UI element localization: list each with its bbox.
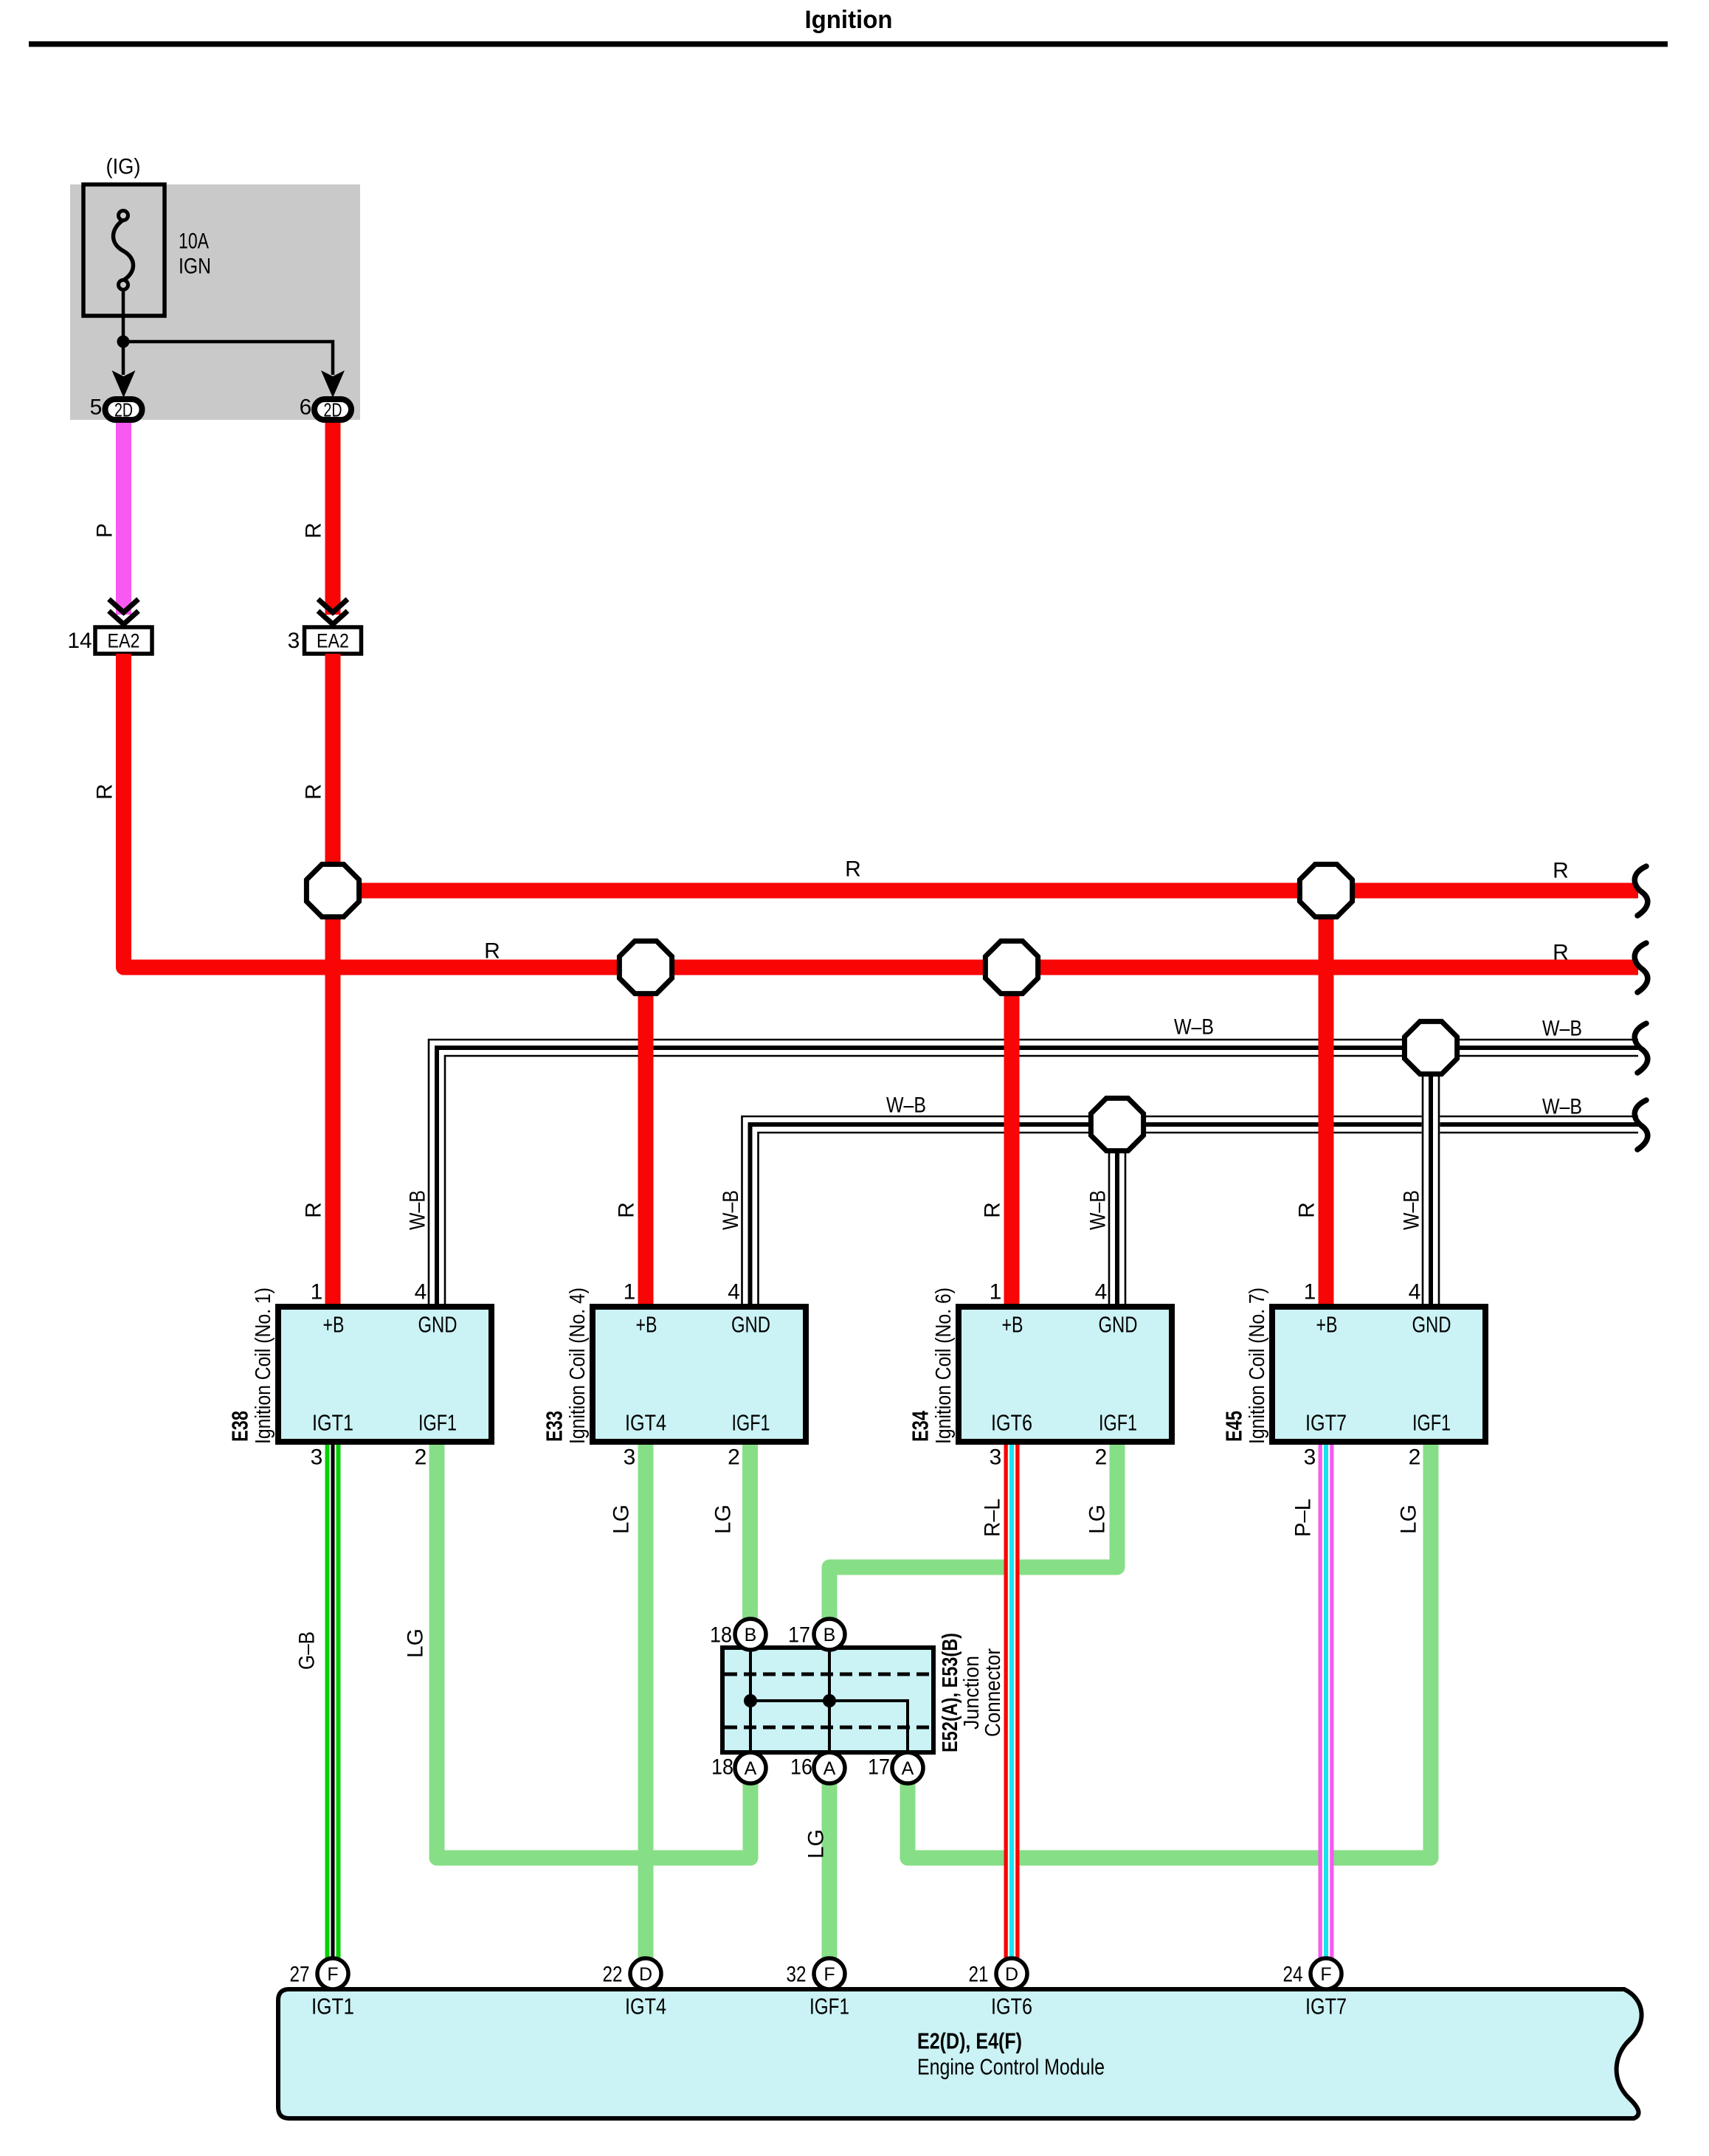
svg-text:W–B: W–B xyxy=(886,1093,926,1118)
svg-text:W–B: W–B xyxy=(406,1190,430,1230)
svg-text:R: R xyxy=(981,1202,1005,1218)
svg-text:4: 4 xyxy=(728,1280,740,1305)
svg-text:E34: E34 xyxy=(908,1410,933,1442)
svg-text:IGN: IGN xyxy=(179,255,211,279)
svg-text:+B: +B xyxy=(323,1312,345,1338)
svg-text:R: R xyxy=(302,1202,326,1218)
svg-text:E2(D), E4(F): E2(D), E4(F) xyxy=(917,2028,1022,2054)
svg-text:W–B: W–B xyxy=(1174,1015,1214,1040)
svg-text:3: 3 xyxy=(990,1445,1002,1470)
svg-text:4: 4 xyxy=(1409,1280,1421,1305)
svg-text:1: 1 xyxy=(311,1280,323,1305)
svg-text:2: 2 xyxy=(1409,1445,1421,1470)
svg-text:+B: +B xyxy=(636,1312,657,1338)
svg-text:10A: 10A xyxy=(179,229,209,254)
svg-text:IGT7: IGT7 xyxy=(1305,1410,1347,1436)
svg-text:GND: GND xyxy=(731,1312,770,1338)
svg-text:EA2: EA2 xyxy=(317,630,349,652)
svg-text:LG: LG xyxy=(1397,1504,1421,1534)
svg-text:A: A xyxy=(902,1758,914,1779)
svg-text:Ignition Coil (No. 4): Ignition Coil (No. 4) xyxy=(566,1288,590,1444)
svg-text:E38: E38 xyxy=(227,1411,253,1442)
svg-text:EA2: EA2 xyxy=(108,630,140,652)
svg-text:2D: 2D xyxy=(114,399,133,421)
svg-text:IGF1: IGF1 xyxy=(809,1994,849,2019)
svg-text:17: 17 xyxy=(868,1755,890,1780)
svg-text:3: 3 xyxy=(288,629,300,653)
svg-text:4: 4 xyxy=(1095,1280,1108,1305)
svg-text:F: F xyxy=(824,1964,835,1985)
svg-text:32: 32 xyxy=(787,1963,807,1987)
svg-text:IGF1: IGF1 xyxy=(418,1410,457,1436)
svg-text:5: 5 xyxy=(90,395,103,420)
svg-text:Ignition Coil (No. 6): Ignition Coil (No. 6) xyxy=(932,1288,956,1444)
svg-text:+B: +B xyxy=(1316,1312,1338,1338)
svg-text:IGT1: IGT1 xyxy=(312,1410,353,1436)
svg-text:IGT6: IGT6 xyxy=(991,1410,1032,1436)
svg-text:R: R xyxy=(845,857,861,882)
svg-text:GND: GND xyxy=(1099,1312,1138,1338)
svg-text:Ignition: Ignition xyxy=(805,6,893,34)
svg-text:A: A xyxy=(824,1758,836,1779)
svg-text:LG: LG xyxy=(610,1504,634,1534)
svg-text:R: R xyxy=(1553,941,1569,965)
svg-text:18: 18 xyxy=(710,1623,732,1648)
svg-text:IGF1: IGF1 xyxy=(1099,1410,1137,1436)
svg-text:GND: GND xyxy=(1412,1312,1451,1338)
svg-text:R–L: R–L xyxy=(981,1499,1005,1537)
svg-text:2: 2 xyxy=(415,1445,427,1470)
svg-text:17: 17 xyxy=(788,1623,810,1648)
svg-text:E45: E45 xyxy=(1221,1411,1247,1442)
svg-text:R: R xyxy=(1553,859,1569,883)
svg-text:GND: GND xyxy=(418,1312,458,1338)
svg-text:IGF1: IGF1 xyxy=(732,1410,770,1436)
svg-text:F: F xyxy=(1320,1964,1331,1985)
svg-text:(IG): (IG) xyxy=(106,155,141,179)
svg-text:W–B: W–B xyxy=(1086,1190,1111,1230)
svg-text:4: 4 xyxy=(415,1280,427,1305)
svg-text:IGT4: IGT4 xyxy=(625,1994,666,2019)
svg-text:E52(A), E53(B): E52(A), E53(B) xyxy=(939,1633,962,1752)
svg-text:B: B xyxy=(745,1625,757,1645)
svg-text:1: 1 xyxy=(1304,1280,1316,1305)
svg-text:3: 3 xyxy=(311,1445,323,1470)
svg-text:W–B: W–B xyxy=(1400,1190,1424,1230)
svg-text:R: R xyxy=(615,1202,639,1218)
svg-text:22: 22 xyxy=(603,1963,623,1987)
svg-text:1: 1 xyxy=(624,1280,636,1305)
svg-text:1: 1 xyxy=(990,1280,1002,1305)
svg-text:16: 16 xyxy=(790,1755,812,1780)
svg-text:IGT4: IGT4 xyxy=(625,1410,666,1436)
svg-text:Engine Control Module: Engine Control Module xyxy=(917,2054,1105,2080)
svg-text:3: 3 xyxy=(1304,1445,1316,1470)
svg-text:R: R xyxy=(484,939,500,964)
svg-text:3: 3 xyxy=(624,1445,636,1470)
svg-text:F: F xyxy=(327,1964,338,1985)
svg-text:D: D xyxy=(1005,1964,1018,1985)
svg-text:R: R xyxy=(302,522,326,539)
svg-text:W–B: W–B xyxy=(719,1190,743,1230)
svg-text:LG: LG xyxy=(1085,1504,1110,1534)
svg-text:IGT6: IGT6 xyxy=(991,1994,1032,2019)
svg-text:W–B: W–B xyxy=(1542,1095,1582,1119)
svg-text:21: 21 xyxy=(969,1963,989,1987)
svg-text:R: R xyxy=(1295,1202,1319,1218)
svg-text:LG: LG xyxy=(404,1628,428,1658)
svg-text:IGF1: IGF1 xyxy=(1412,1410,1451,1436)
svg-text:R: R xyxy=(302,784,326,800)
svg-text:18: 18 xyxy=(711,1755,733,1780)
svg-text:IGT1: IGT1 xyxy=(311,1994,354,2019)
svg-text:W–B: W–B xyxy=(1542,1017,1582,1041)
svg-text:14: 14 xyxy=(67,629,92,653)
svg-text:R: R xyxy=(93,784,117,800)
svg-text:D: D xyxy=(639,1964,652,1985)
svg-text:A: A xyxy=(745,1758,757,1779)
svg-text:LG: LG xyxy=(711,1504,736,1534)
svg-text:24: 24 xyxy=(1283,1963,1303,1987)
svg-text:+B: +B xyxy=(1002,1312,1023,1338)
svg-text:G–B: G–B xyxy=(295,1631,320,1670)
svg-text:LG: LG xyxy=(804,1829,829,1859)
svg-text:P: P xyxy=(93,523,117,538)
svg-text:E33: E33 xyxy=(542,1411,567,1442)
svg-text:JunctionConnector: JunctionConnector xyxy=(960,1648,1005,1737)
svg-text:6: 6 xyxy=(300,395,312,420)
svg-text:Ignition Coil (No. 7): Ignition Coil (No. 7) xyxy=(1246,1288,1269,1444)
svg-text:2D: 2D xyxy=(324,399,342,421)
svg-text:Ignition Coil (No. 1): Ignition Coil (No. 1) xyxy=(252,1288,275,1444)
svg-text:IGT7: IGT7 xyxy=(1305,1994,1347,2019)
svg-text:27: 27 xyxy=(290,1963,310,1987)
svg-text:P–L: P–L xyxy=(1291,1499,1316,1537)
svg-text:B: B xyxy=(824,1625,836,1645)
svg-text:2: 2 xyxy=(1095,1445,1108,1470)
svg-text:2: 2 xyxy=(728,1445,740,1470)
